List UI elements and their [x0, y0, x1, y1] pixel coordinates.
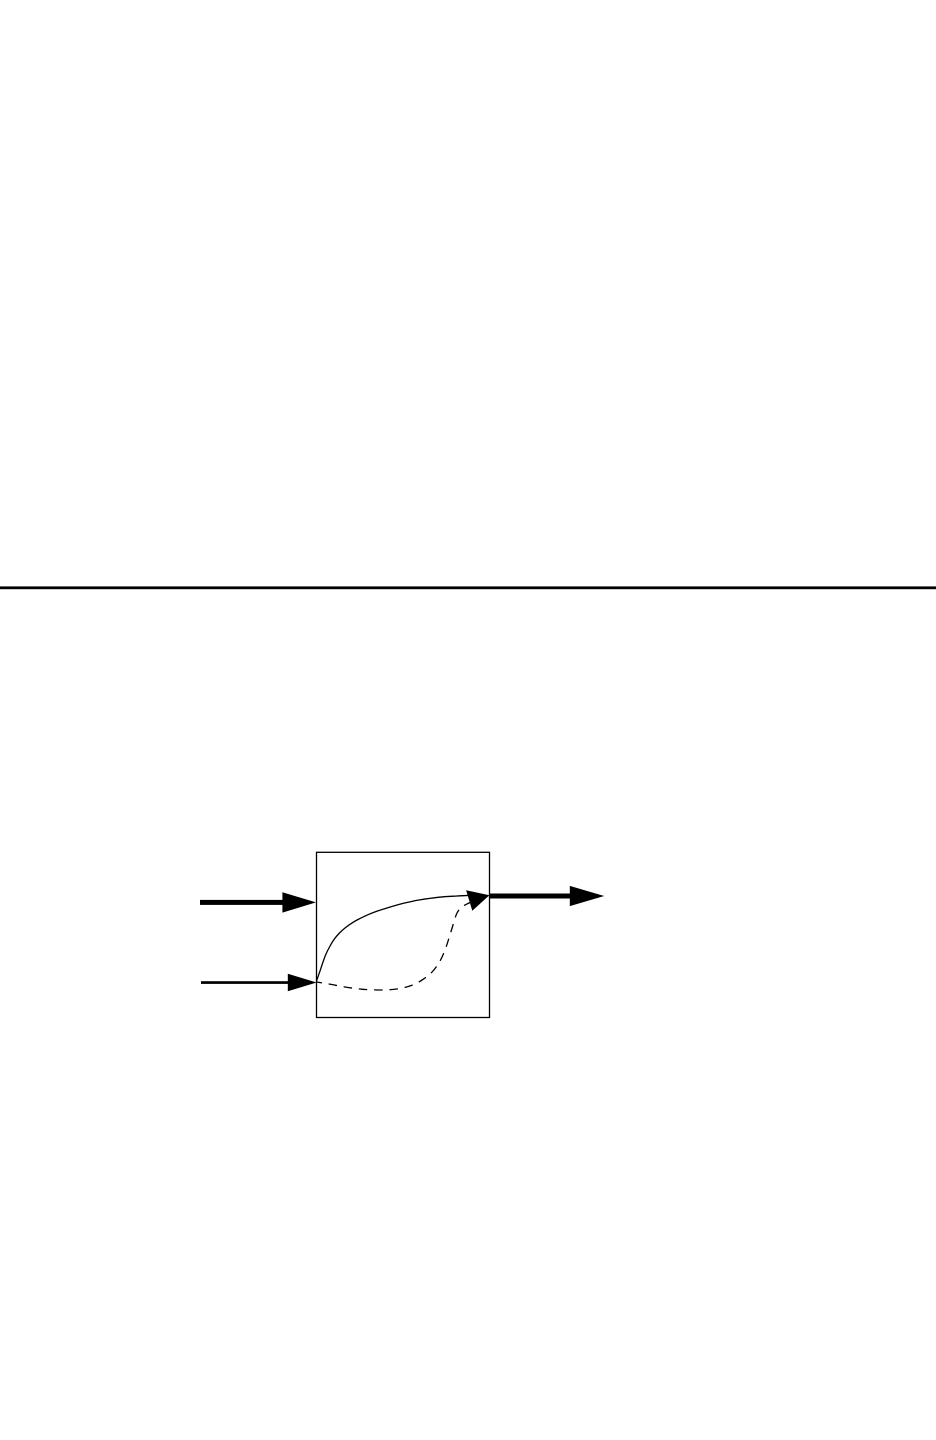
curve arrowhead [466, 890, 489, 911]
process box [317, 852, 490, 1017]
thick input arrow (top left) [200, 892, 316, 912]
thick output arrow (right) [490, 886, 605, 906]
horizontal rule [0, 586, 936, 589]
thin input arrow (bottom left) [201, 974, 317, 991]
dashed response curve [317, 896, 488, 991]
solid response curve [317, 895, 485, 981]
